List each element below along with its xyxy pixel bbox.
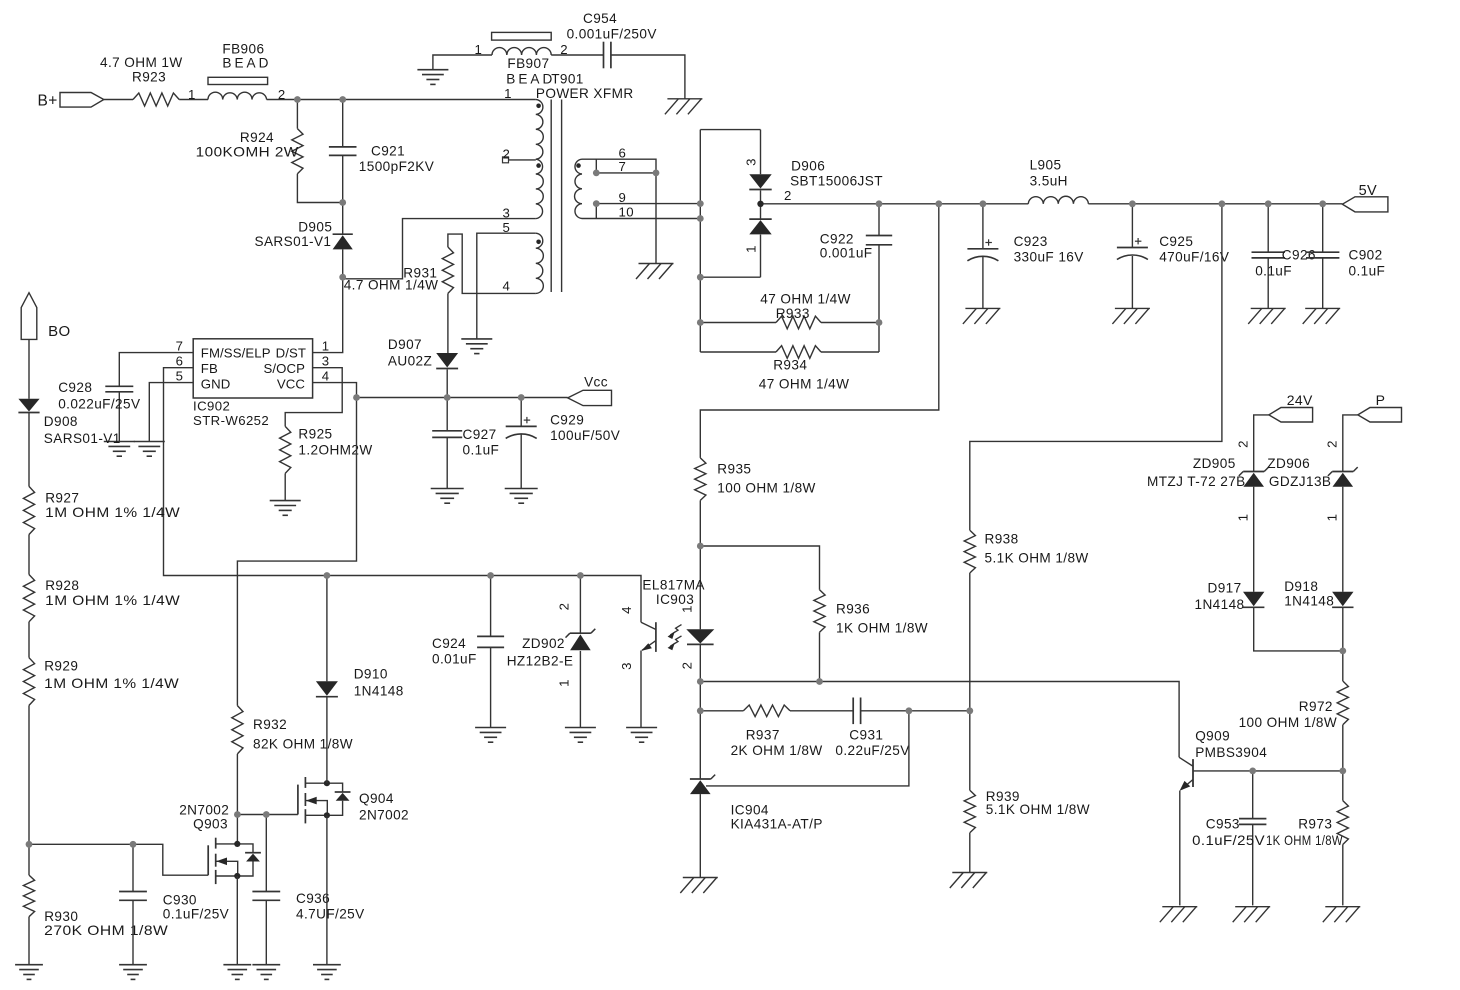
svg-text:4.7UF/25V: 4.7UF/25V <box>296 907 365 922</box>
svg-text:C953: C953 <box>1206 817 1240 832</box>
svg-text:R934: R934 <box>773 358 807 373</box>
svg-text:C924: C924 <box>432 636 466 651</box>
svg-text:ZD905: ZD905 <box>1193 456 1236 471</box>
svg-text:R925: R925 <box>298 427 332 442</box>
svg-text:6: 6 <box>176 354 184 369</box>
svg-text:D/ST: D/ST <box>276 346 306 361</box>
svg-text:0.001uF/250V: 0.001uF/250V <box>567 27 657 42</box>
svg-text:C926: C926 <box>1282 248 1316 263</box>
svg-text:0.1uF: 0.1uF <box>463 443 500 458</box>
svg-text:5V: 5V <box>1359 183 1378 199</box>
svg-text:C931: C931 <box>849 728 883 743</box>
svg-text:PMBS3904: PMBS3904 <box>1195 745 1267 760</box>
svg-text:5: 5 <box>176 369 184 384</box>
svg-text:1N4148: 1N4148 <box>354 684 404 699</box>
svg-text:24V: 24V <box>1287 392 1313 408</box>
svg-text:AU02Z: AU02Z <box>388 354 432 369</box>
svg-text:P: P <box>1376 392 1386 408</box>
svg-text:9: 9 <box>619 190 627 205</box>
svg-text:Q909: Q909 <box>1195 729 1230 744</box>
svg-text:3: 3 <box>322 354 330 369</box>
svg-text:2N7002: 2N7002 <box>359 808 409 823</box>
svg-text:R935: R935 <box>717 462 751 477</box>
svg-text:FB: FB <box>201 361 218 376</box>
svg-text:R936: R936 <box>836 602 870 617</box>
svg-text:1: 1 <box>322 339 330 354</box>
svg-text:ZD902: ZD902 <box>522 636 565 651</box>
svg-text:VCC: VCC <box>277 377 306 392</box>
svg-text:1.2OHM2W: 1.2OHM2W <box>298 443 372 458</box>
svg-text:C927: C927 <box>463 427 497 442</box>
svg-text:1500pF2KV: 1500pF2KV <box>359 159 434 174</box>
svg-text:C928: C928 <box>58 380 92 395</box>
svg-text:MTZJ T-72 27B: MTZJ T-72 27B <box>1147 474 1246 489</box>
svg-text:7: 7 <box>619 159 627 174</box>
svg-text:IC903: IC903 <box>656 592 694 607</box>
svg-text:330uF 16V: 330uF 16V <box>1014 250 1084 265</box>
svg-text:R930: R930 <box>44 909 78 924</box>
svg-text:3.5uH: 3.5uH <box>1030 174 1068 189</box>
svg-text:2: 2 <box>784 188 792 203</box>
svg-text:Q903: Q903 <box>193 817 228 832</box>
svg-text:2: 2 <box>1325 440 1340 448</box>
svg-text:0.22uF/25V: 0.22uF/25V <box>835 743 909 758</box>
svg-text:GND: GND <box>201 377 231 392</box>
svg-text:C925: C925 <box>1159 234 1193 249</box>
svg-text:BO: BO <box>48 323 70 340</box>
svg-text:R972: R972 <box>1299 699 1333 714</box>
svg-text:0.01uF: 0.01uF <box>432 652 477 667</box>
svg-text:82K OHM 1/8W: 82K OHM 1/8W <box>253 737 353 752</box>
svg-text:7: 7 <box>176 339 184 354</box>
svg-text:100 OHM 1/8W: 100 OHM 1/8W <box>717 481 815 496</box>
svg-text:R927: R927 <box>45 491 79 506</box>
svg-text:47 OHM 1/4W: 47 OHM 1/4W <box>759 377 850 392</box>
svg-text:47 OHM 1/4W: 47 OHM 1/4W <box>760 292 851 307</box>
svg-text:270K OHM 1/8W: 270K OHM 1/8W <box>44 923 168 938</box>
svg-text:D917: D917 <box>1208 581 1242 596</box>
svg-text:2: 2 <box>503 147 511 162</box>
svg-text:SBT15006JST: SBT15006JST <box>790 174 883 189</box>
svg-text:1K OHM 1/8W: 1K OHM 1/8W <box>836 621 928 636</box>
svg-text:R938: R938 <box>985 532 1019 547</box>
svg-text:5.1K OHM 1/8W: 5.1K OHM 1/8W <box>985 551 1089 566</box>
svg-text:S/OCP: S/OCP <box>263 361 305 376</box>
svg-text:T901: T901 <box>551 72 584 87</box>
svg-text:D908: D908 <box>44 414 78 429</box>
svg-text:0.1uF: 0.1uF <box>1255 264 1292 279</box>
svg-text:100uF/50V: 100uF/50V <box>550 428 620 443</box>
svg-text:Q904: Q904 <box>359 791 394 806</box>
svg-text:GDZJ13B: GDZJ13B <box>1269 474 1331 489</box>
svg-text:HZ12B2-E: HZ12B2-E <box>507 654 574 669</box>
svg-text:C921: C921 <box>371 144 405 159</box>
svg-text:BEAD: BEAD <box>506 72 555 87</box>
svg-text:2: 2 <box>557 603 572 611</box>
svg-text:C922: C922 <box>820 232 854 247</box>
svg-text:L905: L905 <box>1030 158 1062 173</box>
svg-text:100 OHM 1/8W: 100 OHM 1/8W <box>1239 715 1337 730</box>
svg-text:BEAD: BEAD <box>222 56 271 71</box>
svg-text:D906: D906 <box>791 159 825 174</box>
svg-text:IC904: IC904 <box>731 803 769 818</box>
svg-text:1N4148: 1N4148 <box>1284 594 1334 609</box>
svg-text:R937: R937 <box>746 728 780 743</box>
svg-text:0.1uF/25V: 0.1uF/25V <box>163 907 229 922</box>
svg-text:SARS01-V1: SARS01-V1 <box>255 234 332 249</box>
svg-text:C929: C929 <box>550 413 584 428</box>
svg-text:R923: R923 <box>132 70 166 85</box>
svg-text:1K OHM 1/8W: 1K OHM 1/8W <box>1266 833 1343 848</box>
svg-text:0.001uF: 0.001uF <box>820 246 873 261</box>
svg-text:1M OHM 1% 1/4W: 1M OHM 1% 1/4W <box>44 676 179 691</box>
svg-text:4.7 OHM 1W: 4.7 OHM 1W <box>100 55 183 70</box>
svg-text:R931: R931 <box>403 266 437 281</box>
svg-text:ZD906: ZD906 <box>1267 456 1310 471</box>
svg-text:3: 3 <box>744 158 759 166</box>
svg-text:EL817MA: EL817MA <box>642 578 705 593</box>
svg-text:D910: D910 <box>354 667 388 682</box>
svg-text:1: 1 <box>744 245 759 253</box>
svg-text:4: 4 <box>322 369 330 384</box>
svg-text:2: 2 <box>680 662 695 670</box>
svg-text:5.1K OHM 1/8W: 5.1K OHM 1/8W <box>986 802 1090 817</box>
svg-text:3: 3 <box>503 206 511 221</box>
svg-text:B+: B+ <box>38 93 58 110</box>
svg-text:C930: C930 <box>163 893 197 908</box>
svg-text:0.1uF: 0.1uF <box>1349 264 1386 279</box>
svg-text:R933: R933 <box>776 306 810 321</box>
svg-text:R929: R929 <box>44 659 78 674</box>
svg-text:SARS01-V1: SARS01-V1 <box>44 431 121 446</box>
svg-text:C936: C936 <box>296 891 330 906</box>
svg-text:1: 1 <box>680 605 695 613</box>
svg-text:1: 1 <box>504 86 512 101</box>
svg-text:STR-W6252: STR-W6252 <box>193 413 269 428</box>
svg-text:4: 4 <box>503 279 511 294</box>
svg-text:1M OHM 1% 1/4W: 1M OHM 1% 1/4W <box>45 505 180 520</box>
svg-text:2: 2 <box>278 87 286 102</box>
svg-text:D907: D907 <box>388 337 422 352</box>
svg-text:Vcc: Vcc <box>584 375 608 390</box>
svg-text:C954: C954 <box>583 11 617 26</box>
svg-text:100KOMH 2W: 100KOMH 2W <box>196 145 299 160</box>
svg-text:C902: C902 <box>1349 248 1383 263</box>
svg-text:2: 2 <box>560 42 568 57</box>
svg-text:470uF/16V: 470uF/16V <box>1159 250 1229 265</box>
svg-text:0.1uF/25V: 0.1uF/25V <box>1192 833 1265 848</box>
svg-text:D905: D905 <box>298 220 332 235</box>
svg-text:3: 3 <box>619 662 634 670</box>
svg-text:R924: R924 <box>240 130 274 145</box>
svg-text:2N7002: 2N7002 <box>179 803 229 818</box>
svg-text:4: 4 <box>619 606 634 614</box>
svg-text:1: 1 <box>557 679 572 687</box>
svg-text:1: 1 <box>188 87 196 102</box>
svg-text:C923: C923 <box>1014 234 1048 249</box>
svg-text:1: 1 <box>475 42 483 57</box>
svg-text:R973: R973 <box>1298 817 1332 832</box>
svg-text:R932: R932 <box>253 717 287 732</box>
svg-text:1: 1 <box>1325 514 1340 522</box>
svg-text:0.022uF/25V: 0.022uF/25V <box>58 397 140 412</box>
svg-text:FM/SS/ELP: FM/SS/ELP <box>201 346 271 361</box>
svg-text:KIA431A-AT/P: KIA431A-AT/P <box>731 817 823 832</box>
svg-text:R928: R928 <box>45 578 79 593</box>
svg-text:1M OHM 1% 1/4W: 1M OHM 1% 1/4W <box>45 593 180 608</box>
svg-text:1N4148: 1N4148 <box>1195 597 1245 612</box>
svg-text:FB906: FB906 <box>222 42 264 57</box>
svg-text:IC902: IC902 <box>193 399 230 414</box>
svg-text:1: 1 <box>1236 514 1251 522</box>
svg-text:2: 2 <box>1236 440 1251 448</box>
svg-text:D918: D918 <box>1284 579 1318 594</box>
svg-text:FB907: FB907 <box>507 56 549 71</box>
svg-text:10: 10 <box>619 205 634 220</box>
svg-text:POWER XFMR: POWER XFMR <box>536 86 634 101</box>
svg-text:2K OHM 1/8W: 2K OHM 1/8W <box>731 743 823 758</box>
